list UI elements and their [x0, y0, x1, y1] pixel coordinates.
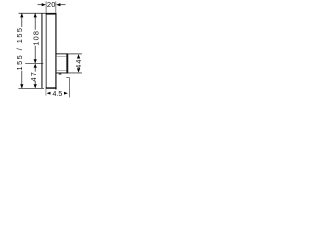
knob top extension to 44-dim [68, 53, 82, 55]
knob lower gray line [56, 70, 66, 72]
body plate outline [46, 13, 56, 88]
knob bottom extension to 44-dim [68, 72, 82, 74]
47 bottom arrow [34, 84, 37, 88]
svg-text:47: 47 [29, 71, 38, 81]
4.5 right arrow (right-pointing) [64, 92, 68, 95]
body right edge thick [55, 13, 57, 88]
47 top arrow [34, 64, 37, 68]
knob top edge [56, 53, 68, 55]
4.5 left arrow (left-pointing) [47, 92, 51, 95]
155 bottom arrow [20, 84, 23, 88]
svg-text:20: 20 [47, 0, 56, 9]
svg-text:44: 44 [74, 58, 83, 68]
44 dim line stubs [78, 58, 80, 70]
svg-text:155 / 155: 155 / 155 [15, 27, 24, 71]
155 dim line [21, 14, 23, 89]
4.5 right extension jog [66, 77, 69, 97]
4.5 left extension [45, 89, 47, 96]
108 dim line [34, 14, 36, 63]
knob upper gray line [56, 56, 66, 58]
44 top arrow [77, 54, 80, 58]
mid extension line [25, 62, 43, 64]
108 top arrow [34, 13, 37, 17]
top extension line [19, 12, 57, 14]
155 top arrow [20, 13, 23, 17]
20-dim left arrow (right-pointing) [42, 3, 46, 6]
47 dim line [34, 67, 36, 85]
svg-text:108: 108 [31, 30, 40, 46]
44 bottom arrow [77, 68, 80, 72]
20-dim right arrow (left-pointing) [56, 3, 60, 6]
20-dim left tail [38, 4, 43, 6]
body bottom edge thick [46, 87, 57, 89]
body top edge thick [46, 13, 57, 15]
108 bottom arrow [34, 59, 37, 63]
knob bottom edge [56, 72, 68, 74]
bottom extension line [18, 87, 44, 89]
wall line [41, 13, 43, 88]
body bottom-right corner chunk [55, 87, 56, 89]
20-dim right tail [60, 4, 66, 6]
knob button mark [59, 73, 62, 74]
20-dim right extension [55, 1, 57, 13]
knob right face bar [66, 54, 68, 74]
svg-text:4.5: 4.5 [53, 91, 63, 98]
20-dim left extension [45, 1, 47, 13]
